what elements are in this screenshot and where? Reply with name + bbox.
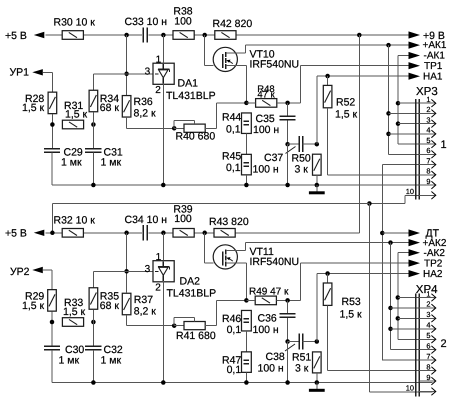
pin XP4.7: [419, 359, 435, 361]
node +AK2 feed junction: [388, 240, 393, 245]
wire R34 bottom: [92, 112, 94, 148]
port +9V: [409, 31, 421, 38]
pin XP4.6: [419, 349, 435, 351]
port -AK1: [398, 55, 409, 57]
node R28-R31-C29 junction: [50, 122, 55, 127]
wire VT11 gate feed: [204, 233, 206, 263]
svg-text:3 к: 3 к: [295, 164, 309, 176]
port +AK1: [409, 42, 421, 49]
capacitor C37: [288, 143, 299, 145]
wire DA2 ref vertical: [126, 233, 128, 293]
ic DA1 TL431: [153, 63, 174, 84]
svg-text:3 к: 3 к: [295, 362, 309, 374]
resistor R39: [173, 229, 194, 238]
svg-text:R44: R44: [222, 112, 241, 124]
wire TP1 riser: [300, 66, 302, 103]
capacitor C34: [142, 225, 144, 240]
wire R37 bottom to R41: [126, 315, 128, 326]
node +AK1 feed junction: [386, 43, 391, 48]
wire ref to R35: [93, 270, 126, 272]
wire C29 bottom: [51, 152, 53, 185]
pin XP3.4: [419, 133, 435, 135]
svg-text:1,5 к: 1,5 к: [335, 109, 358, 121]
wire XP4 pin10: [369, 391, 432, 393]
capacitor C29: [44, 148, 60, 150]
svg-text:УР1: УР1: [10, 67, 30, 79]
svg-text:IRF540NU: IRF540NU: [250, 58, 300, 70]
svg-text:100 н: 100 н: [258, 362, 284, 374]
svg-text:R41 680: R41 680: [176, 330, 216, 342]
resistor R52: [327, 76, 329, 85]
node rail-R39-R43 junction: [202, 231, 207, 236]
net +5V rail (top): [46, 34, 143, 36]
wire XP3 pin4: [389, 133, 433, 135]
wire R35 bottom: [92, 309, 94, 345]
resistor R49: [255, 296, 276, 305]
svg-text:DA1: DA1: [178, 78, 199, 90]
shunt R46: [242, 310, 252, 331]
svg-text:1 мк: 1 мк: [101, 355, 122, 367]
wire C32 bottom: [92, 350, 94, 383]
node R41 tap junction: [172, 323, 177, 328]
wire DT row: [382, 232, 408, 234]
pin XP3.10: [419, 194, 435, 196]
node source-R49-R46 junction: [244, 298, 249, 303]
svg-text:0,1: 0,1: [227, 324, 242, 336]
port DT: [409, 229, 421, 236]
svg-text:R43 820: R43 820: [209, 216, 249, 228]
wire +9V drop: [358, 35, 360, 233]
resistor R28: [48, 92, 57, 114]
svg-text:3: 3: [145, 67, 151, 78]
svg-text:+АК1: +АК1: [423, 40, 447, 51]
resistor R34: [89, 90, 98, 112]
node bus C35: [285, 183, 290, 188]
wire R28 bottom: [51, 114, 53, 148]
node source-R48-R44 junction: [244, 101, 249, 106]
svg-text:2: 2: [155, 283, 161, 294]
svg-text:8,2 к: 8,2 к: [134, 305, 157, 317]
wire R40 right riser: [205, 127, 216, 129]
wire intertie to XP4 pin10: [368, 204, 370, 392]
pin XP4.1: [419, 297, 435, 299]
svg-text:R36: R36: [134, 96, 153, 108]
svg-text:1,5 к: 1,5 к: [22, 102, 45, 114]
pin XP3.3: [419, 123, 435, 125]
resistor R40 trimmer: [174, 127, 184, 129]
svg-text:ТР2: ТР2: [424, 258, 443, 269]
wire R53 to XP4 pin8: [327, 305, 329, 370]
pin XP3.9: [419, 184, 435, 186]
svg-text:C37: C37: [264, 152, 283, 164]
node bus2 R47: [244, 380, 249, 385]
node -AK1 pin3: [396, 121, 401, 126]
node -AK2 pin3: [396, 316, 401, 321]
svg-text:6: 6: [426, 342, 430, 351]
resistor R43: [214, 229, 235, 238]
wire C36 ground leg: [287, 342, 289, 383]
svg-text:C34 10 н: C34 10 н: [125, 214, 168, 226]
node bus C31: [91, 183, 96, 188]
svg-text:100: 100: [174, 15, 192, 27]
node C38-R51-HA2 junction: [315, 339, 320, 344]
wire VT10 gate feed: [204, 35, 206, 66]
connector XP4 body: [415, 294, 417, 397]
capacitor C31: [85, 148, 101, 150]
svg-text:10: 10: [406, 383, 414, 392]
wire C35 ground leg: [287, 144, 289, 185]
svg-text:2: 2: [426, 300, 430, 309]
svg-text:100 н: 100 н: [253, 124, 279, 136]
svg-text:-АК2: -АК2: [424, 248, 446, 259]
resistor R33: [62, 318, 83, 327]
svg-text:C36: C36: [258, 312, 277, 324]
svg-text:2: 2: [441, 338, 447, 350]
wire XP4 pin4: [391, 328, 433, 330]
svg-text:-АК1: -АК1: [424, 51, 446, 62]
node DA2 ref junction: [124, 269, 129, 274]
wire XP4 pin3: [398, 317, 433, 319]
svg-text:7: 7: [426, 156, 430, 165]
pin XP4.3: [419, 317, 435, 319]
node R31-R34-C31 junction: [91, 122, 96, 127]
svg-text:R42 820: R42 820: [213, 18, 253, 30]
svg-text:1: 1: [441, 139, 447, 151]
svg-text:68 к: 68 к: [100, 102, 120, 114]
wire +AK2 feed: [390, 243, 392, 350]
svg-text:5: 5: [426, 136, 430, 145]
pin XP3.5: [419, 143, 435, 145]
node bus2 DA2 anode: [161, 380, 166, 385]
capacitor C32: [85, 345, 101, 347]
shunt R45: [242, 154, 252, 175]
wire ref to R34: [93, 73, 126, 75]
svg-text:100 н: 100 н: [253, 164, 279, 176]
node R29-R33-C30 junction: [50, 320, 55, 325]
wire R41 right riser: [205, 325, 216, 327]
pin XP4.9: [419, 380, 435, 382]
svg-text:9: 9: [426, 177, 430, 186]
port +5V (bottom): [34, 230, 45, 236]
node rail intertie junction: [50, 231, 55, 236]
wire R44-R45: [245, 134, 247, 155]
resistor R41 trimmer: [174, 325, 184, 327]
shunt R44: [242, 113, 252, 134]
wire XP3 pin1: [398, 102, 432, 104]
node +9V drop junction: [357, 33, 362, 38]
wire intertie left: [52, 203, 369, 205]
wire VT10 source riser: [245, 66, 247, 103]
svg-text:1,5 к: 1,5 к: [340, 308, 363, 320]
node rail-C34-DA2ref junction: [124, 231, 129, 236]
capacitor C36: [287, 300, 289, 313]
svg-text:68 к: 68 к: [100, 300, 120, 312]
svg-text:R37: R37: [134, 294, 153, 306]
svg-text:R52: R52: [336, 97, 355, 109]
svg-text:8,2 к: 8,2 к: [134, 108, 157, 120]
node DT junction: [380, 231, 385, 236]
wire R49 leads: [246, 299, 255, 301]
port HA1: [409, 73, 421, 80]
wire DA2 pin3: [127, 270, 153, 272]
svg-text:IRF540NU: IRF540NU: [250, 256, 300, 268]
node +AK2 pin4: [388, 327, 393, 332]
svg-text:2: 2: [426, 105, 430, 114]
port TP1: [409, 62, 421, 69]
node C35-C37 junction: [285, 142, 290, 147]
wire R51 bottom: [316, 373, 318, 383]
resistor R37: [122, 293, 131, 315]
pin XP3.7: [419, 164, 435, 166]
node C36-C38 junction: [285, 339, 290, 344]
wire -AK1 feed: [397, 56, 399, 145]
net +5V rail (bottom): [46, 232, 143, 234]
wire DA1 pin2 lead: [162, 84, 164, 185]
resistor R36: [122, 96, 131, 118]
wire XP4 pin2: [391, 307, 433, 309]
port +AK2: [409, 239, 421, 246]
resistor R30: [62, 31, 83, 40]
svg-text:3: 3: [426, 310, 430, 319]
wire VT10 drain to +AK1: [245, 44, 408, 46]
wire XP4 pin1: [398, 297, 433, 299]
resistor R31: [62, 120, 83, 129]
svg-text:C33 10 н: C33 10 н: [125, 16, 168, 28]
wire R45 bottom: [245, 175, 247, 185]
wire HA1 riser: [316, 76, 318, 144]
wire -AK2 feed: [397, 253, 399, 340]
resistor R32: [62, 229, 83, 238]
wire XP4 pin7: [381, 359, 383, 361]
wire DA2 pin2 lead: [162, 282, 164, 383]
svg-text:DA2: DA2: [180, 276, 201, 288]
svg-text:1,5 к: 1,5 к: [65, 109, 88, 121]
node rail-R38-R42 junction: [202, 33, 207, 38]
pin XP3.1: [419, 102, 435, 104]
svg-text:100: 100: [174, 213, 192, 225]
resistor R38: [173, 31, 194, 40]
node rail-DA2 cathode junction: [161, 231, 166, 236]
svg-text:R45: R45: [222, 151, 241, 163]
wire VT11 source riser: [245, 263, 247, 300]
svg-text:+5 В: +5 В: [5, 30, 27, 42]
wire TP2 row: [301, 262, 409, 264]
svg-text:8: 8: [426, 362, 430, 371]
wire R29 bottom: [51, 311, 53, 345]
node intertie junction: [367, 201, 372, 206]
svg-text:1: 1: [156, 55, 162, 66]
svg-text:+5 В: +5 В: [5, 228, 27, 240]
svg-text:1 мк: 1 мк: [59, 355, 80, 367]
svg-text:8: 8: [426, 167, 430, 176]
ground symbol (bottom): [316, 383, 318, 390]
svg-text:R49 47 к: R49 47 к: [249, 287, 289, 298]
svg-text:1 мк: 1 мк: [101, 157, 122, 169]
svg-text:1,5 к: 1,5 к: [22, 300, 45, 312]
pin XP4.4: [419, 328, 435, 330]
svg-text:1: 1: [156, 252, 162, 263]
node bus R45: [244, 183, 249, 188]
wire R50 bottom: [316, 175, 318, 185]
svg-text:1: 1: [426, 289, 430, 298]
node R33-R35-C32 junction: [91, 320, 96, 325]
pin XP4.2: [419, 307, 435, 309]
node R49-C36 junction: [285, 298, 290, 303]
capacitor C35: [287, 103, 289, 116]
node bus2 R51: [315, 380, 320, 385]
transistor VT10: [213, 47, 237, 71]
pin XP4.8: [419, 370, 435, 372]
node R52 top junction: [325, 74, 330, 79]
wire +AK1 feed: [388, 45, 390, 154]
capacitor C38: [288, 341, 299, 343]
svg-text:6: 6: [426, 146, 430, 155]
svg-text:R30 10 к: R30 10 к: [54, 17, 96, 29]
node rail-C33-DA1ref junction: [124, 33, 129, 38]
svg-text:НА1: НА1: [423, 71, 443, 82]
resistor R53: [327, 274, 329, 284]
net ground bus (bottom): [52, 382, 433, 384]
svg-text:4: 4: [426, 321, 430, 330]
capacitor C30: [44, 345, 60, 347]
wire UR1: [43, 71, 53, 73]
node rail-DA1 cathode junction: [161, 33, 166, 38]
net ground bus (top): [52, 184, 433, 186]
wire R36 bottom to R40: [126, 117, 128, 128]
svg-text:0,1: 0,1: [226, 124, 241, 136]
wire TP2 riser: [300, 263, 302, 300]
node R40 tap junction: [172, 126, 177, 131]
wire DT feed / XP3 pin7: [382, 164, 432, 166]
wire DA1 pin1 lead: [162, 35, 164, 63]
pin XP3.6: [419, 153, 435, 155]
wire XP3 pin10 step: [369, 203, 405, 205]
node C37-R50-HA1 junction: [315, 142, 320, 147]
wire HA2 riser: [316, 274, 318, 342]
svg-text:3: 3: [426, 115, 430, 124]
resistor R51: [313, 352, 322, 373]
svg-text:9: 9: [426, 373, 430, 382]
resistor R29: [48, 290, 57, 312]
wire R48 leads: [246, 102, 255, 104]
svg-text:C38: C38: [266, 351, 285, 363]
wire C30 bottom: [51, 350, 53, 383]
svg-text:ТР1: ТР1: [424, 61, 443, 72]
wire DA2 pin1 lead: [162, 233, 164, 261]
svg-text:100 н: 100 н: [253, 324, 279, 336]
wire C31 bottom: [92, 152, 94, 185]
svg-text:1: 1: [426, 95, 430, 104]
svg-text:TL431BLP: TL431BLP: [167, 288, 217, 300]
wire XP3 pin2: [389, 112, 433, 114]
resistor R42: [215, 31, 236, 40]
wire R47 bottom: [245, 373, 247, 383]
wire VT11 drain to +AK2: [245, 242, 408, 244]
connector XP3 body: [415, 99, 417, 200]
wire DA1 pin3: [127, 73, 153, 75]
svg-text:R32 10 к: R32 10 к: [54, 214, 96, 226]
node +AK1 pin2: [386, 111, 391, 116]
wire R52 to XP3 pin8: [327, 108, 329, 175]
wire XP3 pin3: [398, 123, 432, 125]
resistor R48: [256, 99, 277, 108]
svg-text:7: 7: [426, 352, 430, 361]
wire HA2 row: [317, 273, 409, 275]
pin XP4.10: [419, 390, 435, 392]
svg-text:НА2: НА2: [423, 269, 443, 280]
svg-text:1 мк: 1 мк: [61, 157, 82, 169]
svg-text:5: 5: [426, 331, 430, 340]
svg-text:4: 4: [426, 126, 430, 135]
port TP2: [409, 260, 421, 267]
node R48-C35 junction: [285, 101, 290, 106]
wire TP1 row: [301, 65, 409, 67]
node R53 top junction: [325, 271, 330, 276]
svg-text:TL431BLP: TL431BLP: [166, 90, 216, 102]
svg-text:0,1: 0,1: [226, 162, 241, 174]
svg-text:3: 3: [145, 264, 151, 275]
node bus R50: [315, 183, 320, 188]
node +AK2 pin2: [388, 306, 393, 311]
port HA2: [409, 270, 421, 277]
pin XP4.5: [419, 338, 435, 340]
port -AK2: [398, 252, 409, 254]
transistor VT11: [213, 245, 237, 269]
resistor R50: [313, 154, 322, 175]
svg-text:1,5 к: 1,5 к: [63, 306, 86, 318]
node bus DA1 anode: [161, 183, 166, 188]
svg-text:2: 2: [155, 85, 161, 96]
svg-text:УР2: УР2: [10, 266, 30, 278]
svg-text:0,1: 0,1: [227, 364, 242, 376]
svg-text:10: 10: [406, 187, 414, 196]
pin XP3.8: [419, 174, 435, 176]
pin XP3.2: [419, 112, 435, 114]
shunt R47: [242, 352, 252, 373]
wire DA1 ref vertical: [126, 35, 128, 95]
capacitor C33: [142, 27, 144, 42]
svg-text:47 к: 47 к: [257, 90, 275, 101]
port +5V (top): [34, 32, 45, 38]
node DA1 ref junction: [124, 72, 129, 77]
node -AK2 pin1: [396, 295, 401, 300]
resistor R35: [89, 288, 98, 310]
wire R46-R47: [245, 331, 247, 352]
svg-text:R53: R53: [342, 296, 361, 308]
ground symbol (top): [316, 185, 318, 192]
svg-text:R40 680: R40 680: [176, 130, 216, 142]
ic DA2 TL431: [153, 261, 174, 282]
node +AK1 pin4: [386, 132, 391, 137]
node bus2 C36: [285, 380, 290, 385]
wire HA1 row: [317, 75, 409, 77]
node -AK1 pin1: [396, 101, 401, 106]
wire UR2: [43, 269, 52, 271]
node bus2 C32: [91, 380, 96, 385]
